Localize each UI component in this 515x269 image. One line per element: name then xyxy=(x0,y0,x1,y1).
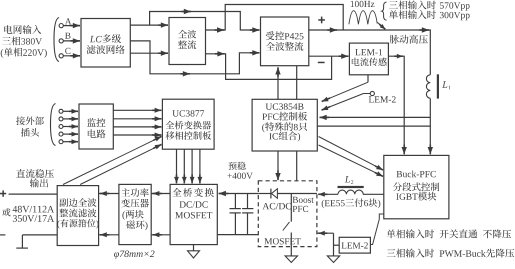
label UC3877 xyxy=(172,110,204,116)
label MOSFET box xyxy=(175,212,212,218)
label IC组合) xyxy=(269,131,300,141)
wire LEM-1 output down to Buck-PFC xyxy=(388,54,407,154)
wire terminal C to LC filter xyxy=(63,53,80,58)
label Boost xyxy=(293,197,314,203)
ground MOSFET xyxy=(285,256,297,263)
label 移相控制板 xyxy=(166,131,212,140)
label 监控 xyxy=(87,118,106,127)
label 或 xyxy=(2,208,10,216)
wire UC3877 drive 2 to full-bridge xyxy=(182,149,187,183)
wire Buck-PFC through L2 to boost xyxy=(318,192,384,197)
label PFC xyxy=(293,206,309,212)
box UC3854B PFC controller xyxy=(252,99,317,151)
waveform 100Hz ripple xyxy=(349,11,377,25)
wire LEM-1 signal to UC3854B xyxy=(322,75,368,102)
ground full-bridge xyxy=(188,245,200,258)
label 副边全波 xyxy=(59,198,96,207)
label phi78mmx2 xyxy=(114,251,154,260)
wire UC3854B to boost block right xyxy=(296,151,298,181)
wire monitor to UC3877 1 xyxy=(113,108,161,113)
label L2 xyxy=(345,176,354,184)
terminal A xyxy=(59,18,71,27)
box AC/DC boost PFC (dashed) xyxy=(258,181,317,247)
box secondary rectifier filter xyxy=(57,186,98,246)
wire monitor to UC3877 3 xyxy=(113,124,161,129)
wire rectifier - output under xyxy=(206,51,332,79)
label 插头 xyxy=(21,128,39,137)
label LC多级 xyxy=(90,34,121,43)
label 脉动高压 xyxy=(390,35,428,44)
label +400V xyxy=(228,173,253,179)
label UC3854B xyxy=(266,103,304,109)
wire - output stub xyxy=(0,234,5,236)
wire LEM-2 signal to UC3854B xyxy=(322,94,364,111)
diode boost xyxy=(271,189,278,199)
label 滤波网络 xyxy=(87,45,125,54)
wire full-bridge to transformer bottom xyxy=(151,232,170,237)
label IGBT模块 xyxy=(396,192,436,201)
label 全桥变换器 xyxy=(166,121,212,130)
wire - output to LEM-1 xyxy=(309,54,349,59)
wire plug 4 to monitor xyxy=(63,132,78,137)
wire plug 3 to monitor xyxy=(63,124,78,129)
capacitor C1 xyxy=(230,194,241,235)
terminal plug 1 xyxy=(59,109,63,113)
label + terminal xyxy=(0,190,6,196)
label 单相输入时 开关直通 不降压 xyxy=(387,229,512,238)
label 全波整流 xyxy=(266,42,303,51)
wire UC3877 drive 4 to full-bridge xyxy=(198,149,203,183)
wire rectifier + output over the top xyxy=(206,5,344,33)
label 全波 xyxy=(178,30,196,39)
wire transformer to secondary bottom xyxy=(99,232,119,237)
wire UC3854B to HV rail xyxy=(317,125,430,127)
box Buck-PFC IGBT module xyxy=(384,155,449,218)
box LC multi-stage filter network xyxy=(81,19,130,68)
ground output xyxy=(16,247,28,249)
terminal plug 2 xyxy=(59,117,63,121)
label DC/DC box xyxy=(180,201,208,207)
wire boost node divider xyxy=(290,194,292,222)
wire terminal A to LC filter xyxy=(63,23,80,28)
label mains input 电网输入 xyxy=(4,25,41,34)
label AC/DC xyxy=(263,203,292,210)
terminal plug 3 xyxy=(59,125,63,129)
wire +400V bus to full-bridge xyxy=(219,191,259,196)
wire LC out B to controlled rectifier xyxy=(130,41,259,77)
label 三相输入时 PWM-Buck先降压 xyxy=(387,249,515,258)
wire controlled rectifier to UC3854B left xyxy=(275,67,280,99)
label LEM-1 xyxy=(355,49,382,55)
box main power transformer xyxy=(119,184,151,244)
box full-bridge DC/DC MOSFET xyxy=(170,184,217,244)
label MOSFET in boost box xyxy=(265,238,301,244)
wire UC3877 drive 1 to full-bridge xyxy=(174,149,179,183)
wire LC out A to rectifier xyxy=(130,22,168,27)
label 电路 xyxy=(88,129,106,138)
wire HV sense to UC3854B xyxy=(320,115,431,120)
wire + bus to high-voltage rail xyxy=(309,27,431,75)
wire UC3854B to boost block left xyxy=(275,151,280,180)
inductor L2 xyxy=(338,186,364,194)
wire L1 down to Buck-PFC xyxy=(428,99,433,155)
wire +400V bus in boost box xyxy=(258,193,317,195)
ground LEM-2 xyxy=(327,256,339,263)
box controlled rectifier 受控P425 xyxy=(261,17,309,66)
label 主功率 xyxy=(121,188,148,197)
wire terminal B to LC filter xyxy=(63,38,80,43)
label 350V/17A xyxy=(13,215,54,222)
label - output xyxy=(318,62,325,64)
arrow waveform to bus xyxy=(378,23,386,30)
wire return bus xyxy=(217,234,258,236)
label L1 xyxy=(442,81,451,89)
label 变压器 xyxy=(121,199,149,208)
label 100Hz xyxy=(351,1,375,7)
inductor L1 xyxy=(426,74,439,98)
terminal plug 5 xyxy=(59,140,63,144)
label 接外部 xyxy=(16,116,44,125)
box LEM-1 current sensor xyxy=(349,43,388,75)
wire UC3854B gate drive 1 to Buck-PFC xyxy=(319,137,384,171)
wire MOSFET to ground xyxy=(290,233,292,256)
box monitoring circuit 监控电路 xyxy=(79,104,113,149)
label 整流 xyxy=(178,40,196,49)
label 磁环) xyxy=(126,220,147,230)
label 三相380V xyxy=(2,36,42,45)
wire MOSFET source to LEM-2 and ground xyxy=(317,231,339,256)
wire plug 2 to monitor xyxy=(63,117,78,122)
label LEM-2 box xyxy=(342,242,368,248)
wire monitor to UC3877 4 xyxy=(113,133,161,138)
terminal C xyxy=(59,48,70,58)
brace for A B C terminals xyxy=(54,18,59,62)
wire UC3877 drive 3 to full-bridge xyxy=(190,149,195,183)
label 分段式控制 xyxy=(393,182,439,191)
terminal plug 4 xyxy=(59,132,63,136)
wire - output to ground xyxy=(22,235,57,248)
wire controlled rectifier to UC3854B right xyxy=(296,66,298,100)
label 全桥变换 xyxy=(172,188,214,197)
label (特殊的8只 xyxy=(262,122,307,132)
label 直流稳压 xyxy=(16,169,54,178)
wire plug 1 to monitor xyxy=(63,109,78,114)
wire output feedback 1 to UC3877 xyxy=(63,136,162,184)
wire LC out C to rectifier xyxy=(130,51,168,56)
box UC3877 phase-shift controller xyxy=(162,99,214,149)
label 输出 xyxy=(30,178,48,187)
wire full-bridge to transformer top xyxy=(151,191,170,196)
wire plug 5 to monitor xyxy=(63,139,78,144)
box LEM-2 current sensor xyxy=(339,237,370,253)
wire Buck-PFC to LEM-2 xyxy=(370,214,383,245)
label LEM-2 signal xyxy=(369,96,396,102)
brace external plug terminals xyxy=(51,104,56,146)
label Buck-PFC xyxy=(397,171,436,178)
wire monitor to UC3877 2 xyxy=(113,116,161,121)
capacitor C2 xyxy=(242,194,253,235)
label (单相220V) xyxy=(1,48,47,58)
wire bypass branch up xyxy=(150,9,260,33)
label (两块 xyxy=(122,210,143,220)
label PFC控制板 xyxy=(262,112,307,121)
box full-wave rectifier 全波整流 xyxy=(169,18,206,65)
label 受控P425 xyxy=(266,31,304,40)
label 三相输入时 570Vpp xyxy=(389,1,470,11)
label 单相输入时 300Vpp xyxy=(389,10,470,20)
label 48V/112A xyxy=(13,206,55,213)
label 整流滤波 xyxy=(59,209,96,218)
wire output feedback 2 to UC3877 xyxy=(80,144,161,184)
brace for Vpp values xyxy=(382,2,387,20)
terminal B xyxy=(59,33,70,43)
label (有源箝位) xyxy=(57,219,98,229)
switch MOSFET xyxy=(283,222,290,231)
label + output xyxy=(318,17,325,24)
label (EE55三付6块) xyxy=(322,198,381,208)
label 电流传感 xyxy=(352,58,387,67)
wire UC3854B gate drive 2 to Buck-PFC xyxy=(319,145,384,176)
label 预稳 xyxy=(229,162,246,170)
wire transformer to secondary top xyxy=(99,191,119,196)
wire + output xyxy=(9,193,58,195)
node LEM-2 signal stub xyxy=(364,91,375,95)
